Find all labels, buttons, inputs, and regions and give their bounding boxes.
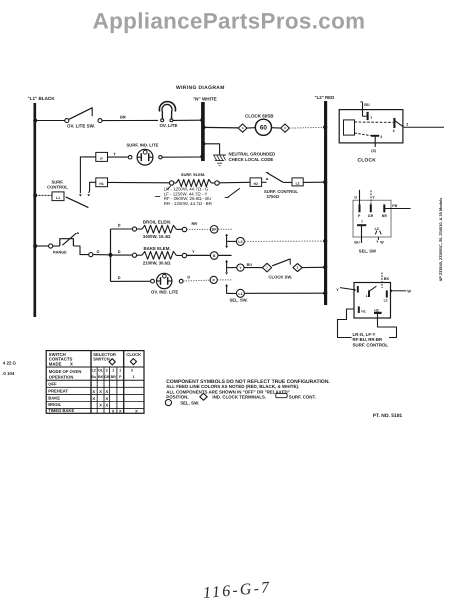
wire BR stub: [218, 228, 233, 230]
contact clock 3: [355, 133, 383, 153]
svg-text:2: 2: [406, 122, 408, 126]
svg-text:H1: H1: [99, 182, 103, 186]
wire diamond 3 to L2 bus: [289, 126, 324, 129]
svg-text:AP 233840, 233891C, 20, 234010: AP 233840, 233891C, 20, 234010, & 30 Mod…: [438, 198, 443, 282]
terminal Y: [237, 264, 244, 271]
heater BAKE ELEM.: [132, 246, 186, 265]
svg-text:CLOCK SW.: CLOCK SW.: [269, 275, 293, 280]
svg-text:CLOCK 60SB: CLOCK 60SB: [245, 114, 274, 119]
svg-text:X: X: [99, 389, 102, 394]
terminal box H1: [96, 178, 108, 187]
connector plug BR-L3: [225, 234, 236, 249]
terminal box H2: [250, 178, 262, 187]
motor CLOCK 60SB: [245, 114, 274, 136]
watermark AppliancePartsPros.com: [93, 9, 366, 34]
svg-text:BK: BK: [384, 277, 390, 281]
terminal L1 selsw: [236, 289, 244, 297]
wire N bus: [201, 102, 205, 161]
svg-text:L2: L2: [375, 227, 379, 231]
terminal box P: [96, 152, 108, 161]
svg-text:G: G: [354, 195, 357, 199]
svg-text:CLOCK: CLOCK: [358, 157, 377, 163]
wire surf elem to H2: [219, 181, 250, 184]
node N label: [193, 97, 217, 102]
svg-text:D: D: [118, 250, 121, 254]
svg-text:BROIL: BROIL: [48, 402, 61, 407]
svg-text:GR: GR: [368, 214, 374, 218]
svg-text:SURF. ELEM.: SURF. ELEM.: [181, 172, 205, 177]
wire BK stub: [382, 273, 390, 289]
svg-text:2: 2: [106, 368, 108, 372]
svg-text:PREHEAT: PREHEAT: [48, 388, 68, 393]
svg-text:CONTROL: CONTROL: [47, 184, 68, 189]
switch CLOCK SW.: [244, 259, 302, 280]
svg-text:X: X: [112, 409, 115, 414]
contact selsw P: [358, 204, 361, 217]
svg-text:BR: BR: [111, 375, 117, 379]
node L2-clocksw junction: [323, 265, 327, 269]
wire L3 to L2 bus: [245, 240, 325, 242]
wire L1 to L1 box: [36, 194, 53, 196]
svg-text:(4): (4): [371, 149, 376, 153]
ground symbol: [213, 155, 226, 166]
svg-text:BU: BU: [354, 241, 360, 245]
svg-text:3: 3: [380, 135, 382, 139]
wire L2 bus: [324, 101, 327, 305]
svg-text:W: W: [407, 289, 411, 294]
breaker RANGE: [36, 232, 80, 255]
wire selsw stub G: [354, 190, 359, 205]
svg-text:RANGE: RANGE: [53, 251, 67, 255]
contact clock 2: [393, 118, 404, 133]
svg-text:BR: BR: [212, 228, 217, 232]
label SURF. CONTROL 3750: [264, 189, 298, 199]
svg-text:ALL FEED LINE COLORS AS NOTED: ALL FEED LINE COLORS AS NOTED (RED, BLAC…: [166, 384, 299, 389]
svg-text:BR: BR: [382, 214, 388, 218]
label SURF. CONTROL left: [47, 180, 68, 190]
wire lamp to N bus: [162, 156, 201, 158]
svg-text:BU: BU: [364, 103, 370, 107]
wire diamond to motor: [247, 127, 255, 129]
note models vertical: [438, 198, 443, 282]
component box CLOCK: [339, 110, 403, 164]
svg-text:2100W, 30.6Ω: 2100W, 30.6Ω: [143, 260, 171, 265]
contact selsw BU: [354, 220, 366, 245]
svg-text:3400W, 16.4Ω: 3400W, 16.4Ω: [143, 234, 171, 239]
note legend: [165, 379, 330, 406]
node L1 label: [28, 96, 56, 101]
svg-text:.0 104: .0 104: [2, 371, 15, 376]
svg-text:IND. CLOCK TERMINALS.: IND. CLOCK TERMINALS.: [212, 395, 266, 400]
connector diamond 4: [238, 124, 247, 132]
motor clock box: [344, 120, 355, 135]
wire L2 box to bus: [303, 181, 324, 183]
wire bake lead: [111, 250, 133, 255]
note margin 422G: [3, 361, 17, 366]
note neutral grounded: [229, 152, 276, 162]
node L2-clock junction: [323, 125, 327, 129]
label BU wire: [247, 263, 253, 267]
wire H1 loop: [338, 309, 355, 338]
svg-text:OV. IND. LITE: OV. IND. LITE: [151, 290, 178, 295]
wire selsw stub Y: [371, 191, 375, 205]
svg-text:CHECK LOCAL CODE: CHECK LOCAL CODE: [229, 157, 274, 162]
connector plug B-Y: [225, 260, 237, 275]
svg-text:BK: BK: [98, 375, 104, 379]
wire N to clock diamond: [204, 126, 238, 129]
node L1-ovlite junction: [33, 119, 37, 123]
wire Y arrow: [336, 287, 356, 292]
svg-text:L2: L2: [296, 182, 300, 186]
svg-text:RF-BU, RR-BR: RF-BU, RR-BR: [353, 337, 383, 342]
svg-text:RR: RR: [192, 221, 198, 226]
svg-text:BROIL ELEM.: BROIL ELEM.: [143, 220, 171, 225]
note handwritten 116-G-7: [202, 579, 272, 600]
terminal P: [210, 276, 232, 283]
terminal B: [210, 252, 231, 260]
svg-text:X: X: [105, 389, 108, 394]
svg-text:H1: H1: [361, 310, 365, 314]
svg-text:L3: L3: [238, 240, 242, 244]
svg-text:D: D: [187, 276, 190, 280]
node L2-L3 junction: [323, 239, 327, 243]
wire lamp to N: [173, 119, 202, 121]
svg-text:1: 1: [119, 368, 121, 372]
svg-text:L1: L1: [238, 292, 242, 296]
svg-text:MADE: MADE: [49, 361, 62, 366]
svg-text:L1: L1: [56, 196, 60, 200]
wire W arrow: [390, 289, 412, 294]
note PT. NO. 5191: [373, 413, 403, 419]
svg-text:OPERATION: OPERATION: [49, 374, 74, 379]
svg-text:RR - 1250W, 44.7Ω - BR: RR - 1250W, 44.7Ω - BR: [164, 201, 212, 206]
svg-text:L2: L2: [384, 299, 388, 303]
svg-text:OV. LITE SW.: OV. LITE SW.: [67, 124, 95, 129]
svg-text:Y: Y: [192, 249, 195, 254]
wire lite to P: [183, 279, 210, 282]
wire clock 2 out: [404, 122, 444, 127]
contact sc H2: [374, 308, 382, 313]
lamp OV. IND. LITE: [151, 273, 184, 294]
svg-text:OV. LITE: OV. LITE: [160, 123, 178, 128]
wire N ground branch: [202, 142, 220, 155]
wire H1 to arrow: [87, 182, 96, 196]
note surf control colors: [353, 332, 389, 347]
node L2-selsw junction: [323, 291, 327, 295]
contact clock 1: [363, 112, 373, 120]
contact selsw L2W: [375, 227, 385, 244]
svg-text:1: 1: [133, 375, 135, 379]
svg-text:2: 2: [131, 368, 133, 372]
wire lite lead: [111, 276, 151, 281]
contact sc P: [357, 286, 359, 293]
wire sw to lamp: [102, 119, 158, 121]
terminal L3: [236, 237, 244, 245]
svg-text:WIRING DIAGRAM: WIRING DIAGRAM: [176, 85, 225, 91]
contact selsw BR: [382, 204, 388, 217]
heater SURF. ELEM.: [169, 172, 219, 187]
svg-text:H2: H2: [374, 308, 378, 312]
terminal box L2: [292, 178, 303, 186]
svg-text:TIMED BAKE: TIMED BAKE: [48, 408, 74, 413]
label Y wire: [192, 249, 195, 254]
svg-text:D: D: [118, 276, 121, 280]
svg-text:ALL COMPONENTS ARE SHOWN IN "O: ALL COMPONENTS ARE SHOWN IN "OFF" OR "RE…: [166, 389, 289, 394]
wire oven feeder: [109, 229, 113, 281]
wire broil lead: [111, 224, 133, 229]
note element list: [164, 187, 212, 206]
switch surf control blade: [66, 197, 89, 208]
terminal BR: [210, 226, 218, 234]
label SEL. SW.: [230, 298, 248, 303]
svg-text:X: X: [70, 361, 73, 366]
svg-text:SEL. SW.: SEL. SW.: [180, 401, 199, 406]
wire motor to diamond 3: [272, 127, 281, 129]
svg-text:SEL. SW.: SEL. SW.: [230, 298, 248, 303]
label O wire right: [187, 276, 190, 280]
switch OV. LITE SW.: [65, 108, 102, 129]
label BR wire: [120, 114, 126, 119]
svg-text:"L2" RED: "L2" RED: [315, 95, 335, 100]
node N-surfind junction: [200, 155, 204, 159]
svg-text:L1: L1: [366, 294, 370, 298]
svg-text:BAKE: BAKE: [48, 395, 60, 400]
svg-text:60: 60: [260, 125, 268, 132]
svg-text:SURF. CONT.: SURF. CONT.: [289, 395, 316, 400]
heater BROIL ELEM.: [132, 220, 186, 240]
svg-text:BR: BR: [120, 114, 126, 119]
svg-text:OL: OL: [98, 368, 104, 372]
svg-text:D: D: [118, 224, 121, 228]
terminal box L1: [52, 192, 64, 201]
wire sel sw to bus: [245, 292, 325, 294]
component box SURF. CONTROL: [354, 283, 391, 319]
svg-text:1: 1: [370, 116, 372, 120]
svg-text:OFF: OFF: [48, 381, 57, 386]
switch surf control right: [262, 173, 284, 183]
svg-text:Y: Y: [336, 287, 339, 292]
contact sc L1: [366, 286, 377, 298]
svg-text:SEL. SW: SEL. SW: [359, 248, 376, 253]
svg-text:"L1" BLACK: "L1" BLACK: [28, 96, 56, 101]
svg-text:1: 1: [112, 368, 114, 372]
svg-text:CLOCK: CLOCK: [126, 352, 141, 357]
svg-text:AppliancePartsPros.com: AppliancePartsPros.com: [93, 9, 366, 34]
connector plug P-L1: [225, 284, 236, 293]
node L1-range junction: [33, 244, 37, 248]
contact selsw GR: [368, 204, 374, 217]
label T wire: [114, 153, 117, 157]
svg-text:BU: BU: [247, 263, 253, 267]
svg-text:POSITION,: POSITION,: [166, 395, 188, 400]
wire list brace: [155, 186, 240, 198]
svg-text:SURF. IND. LITE: SURF. IND. LITE: [127, 142, 159, 147]
node L1-surfctl junction: [33, 193, 37, 197]
wire H1 to surf elem: [108, 181, 170, 183]
svg-text:"N" WHITE: "N" WHITE: [193, 97, 217, 102]
note margin 0104: [2, 371, 15, 376]
svg-text:4 22 G: 4 22 G: [3, 361, 17, 366]
svg-text:X: X: [92, 389, 95, 394]
node N-ovlite junction: [200, 118, 204, 122]
svg-text:X: X: [105, 403, 108, 408]
svg-text:BAKE ELEM.: BAKE ELEM.: [144, 246, 171, 251]
lamp OV. LITE: [159, 102, 177, 128]
wire blade to L2 box: [283, 181, 292, 183]
svg-text:MODE OF OVEN: MODE OF OVEN: [49, 369, 82, 374]
wire clock BU stub: [360, 102, 370, 116]
svg-text:SWITCH: SWITCH: [93, 356, 110, 361]
wire H2 loop: [378, 314, 397, 338]
table switch contacts: [46, 351, 144, 414]
svg-text:SURF. CONTROL: SURF. CONTROL: [353, 342, 389, 347]
node L2 label: [315, 95, 335, 100]
node L2-surfctl junction: [323, 180, 327, 184]
wire broil to BR: [187, 228, 211, 230]
contact sc L2: [384, 290, 388, 302]
svg-text:3750Ω: 3750Ω: [266, 194, 279, 199]
svg-text:PB: PB: [392, 204, 397, 208]
svg-text:X: X: [135, 409, 138, 414]
node N-clock junction: [201, 125, 205, 129]
svg-text:6: 6: [393, 129, 395, 133]
svg-text:GR: GR: [104, 375, 110, 379]
connector diamond 3: [281, 124, 290, 132]
title WIRING DIAGRAM: [176, 85, 225, 91]
lamp SURF. IND. LITE: [127, 142, 163, 165]
wire range to junction: [73, 246, 108, 257]
svg-text:H2: H2: [254, 182, 258, 186]
svg-text:PT. NO. 5191: PT. NO. 5191: [373, 413, 403, 419]
svg-text:X: X: [119, 409, 122, 414]
wire L1 bus: [33, 103, 36, 317]
contact sc H1: [359, 306, 366, 313]
wire P to surf control arrow: [79, 157, 96, 197]
svg-text:X: X: [105, 396, 108, 401]
wire clock sw to bus: [302, 266, 324, 268]
wire bake to B: [187, 254, 211, 256]
wire clock cam dashed: [355, 121, 393, 123]
label RR wire: [192, 221, 198, 226]
svg-text:X: X: [92, 396, 95, 401]
svg-text:L2: L2: [92, 368, 96, 372]
wire L1 to ov lite sw: [35, 120, 65, 122]
wire selsw BR out: [385, 204, 411, 209]
svg-text:G: G: [97, 250, 100, 254]
svg-text:X: X: [99, 403, 102, 408]
svg-text:W: W: [380, 240, 384, 244]
wire P box to lamp: [108, 156, 129, 158]
component box SEL. SW.: [353, 200, 391, 253]
